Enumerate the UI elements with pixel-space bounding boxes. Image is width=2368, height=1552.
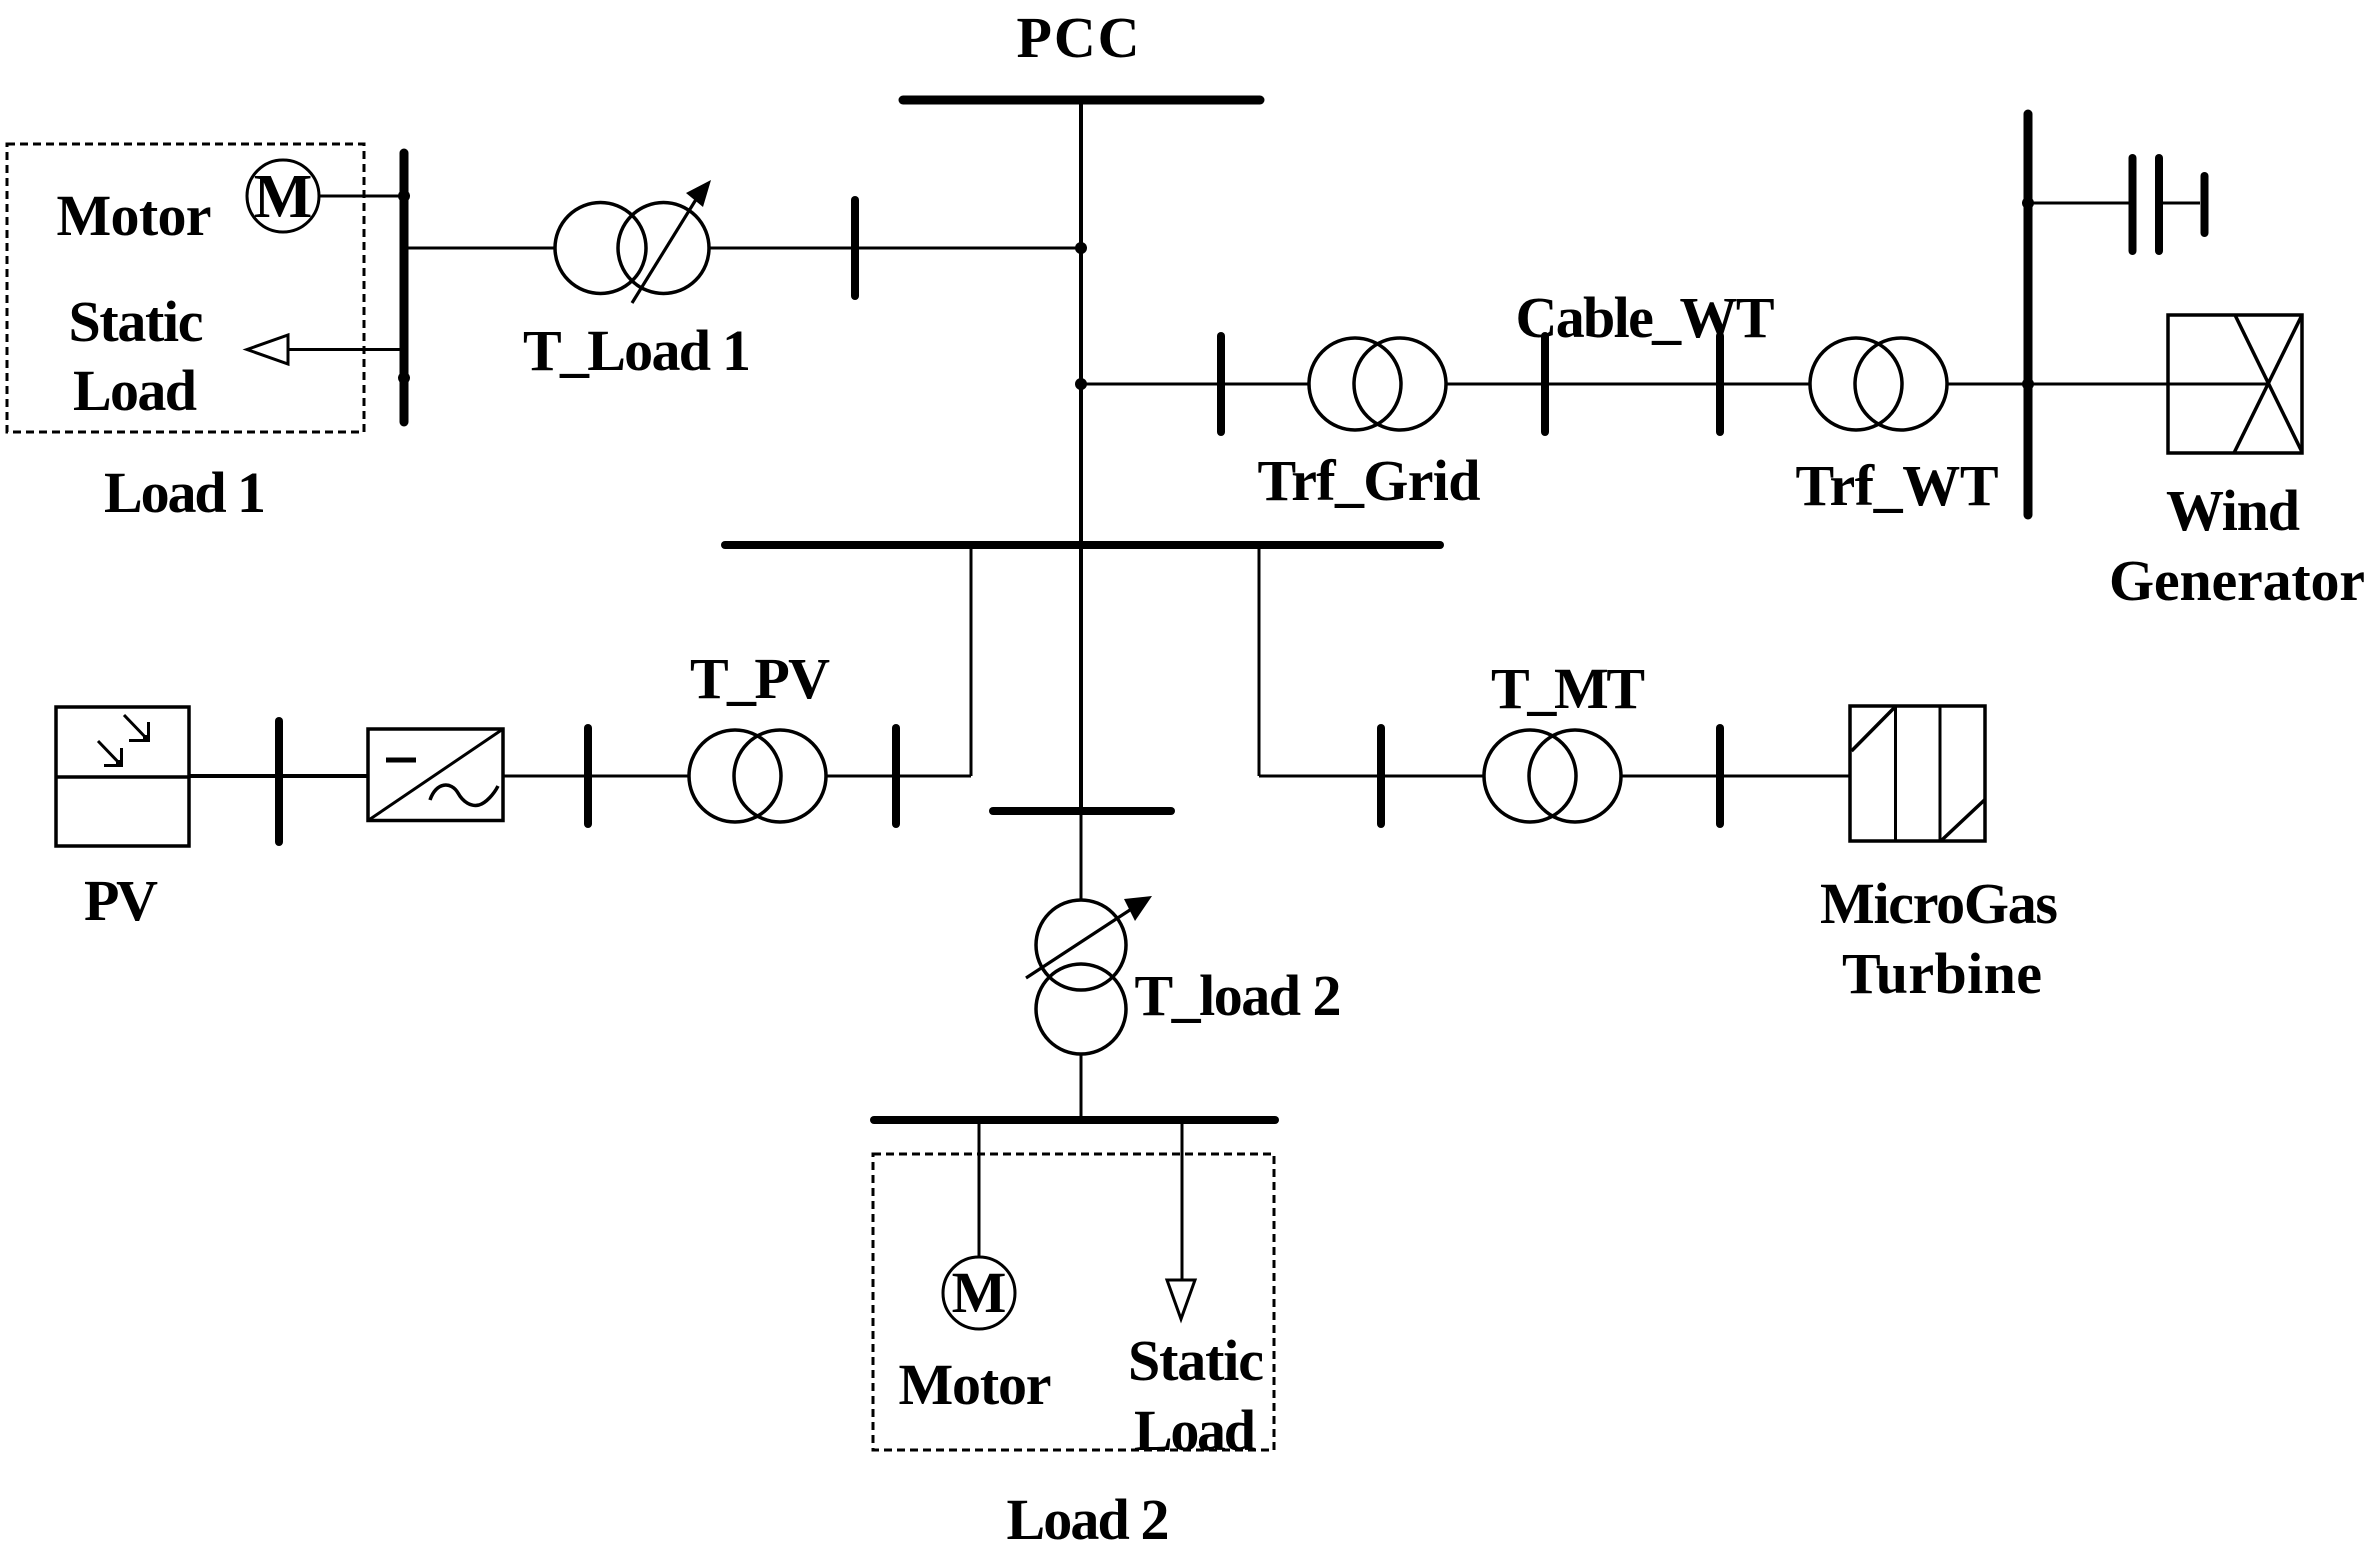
junction node Load1 busbar bottom	[398, 372, 410, 384]
svg-text:Cable_WT: Cable_WT	[1516, 285, 1775, 350]
wire T_PV to drop	[826, 775, 971, 778]
svg-text:Load 1: Load 1	[104, 460, 266, 525]
wire Cable_WT	[1446, 383, 1810, 386]
busbar bottom	[874, 1116, 1275, 1124]
svg-text:Wind: Wind	[2166, 478, 2300, 543]
breaker CB4 (cable right)	[1716, 336, 1724, 432]
junction node on main vertical at row B	[1075, 378, 1087, 390]
wire Trf_WT to WT busbar	[1947, 383, 2028, 386]
wire drop left (middle bus to PV row)	[970, 545, 973, 776]
transformer Trf_Grid	[1309, 338, 1446, 430]
capacitor plate 3 (short)	[2201, 176, 2209, 233]
svg-text:Trf_WT: Trf_WT	[1796, 453, 1999, 518]
wire main vertical from PCC bus to middle bus and small bus	[1079, 100, 1083, 811]
wire T_MT to MicroGas turbine	[1621, 775, 1850, 778]
svg-text:T_MT: T_MT	[1491, 656, 1645, 721]
dashed box Load 1	[7, 144, 364, 432]
transformer T_PV	[689, 730, 826, 822]
svg-text:Load: Load	[73, 358, 197, 423]
static load arrow (Load 2)	[1167, 1280, 1195, 1319]
svg-text:Motor: Motor	[899, 1352, 1052, 1417]
svg-text:T_load 2: T_load 2	[1135, 963, 1342, 1028]
busbar middle	[725, 541, 1440, 549]
wire T_load 2 to bottom bus	[1080, 1054, 1083, 1120]
transformer Trf_WT	[1810, 338, 1947, 430]
wire drop right to T_MT	[1259, 775, 1484, 778]
motor M (Load 1)	[247, 160, 319, 232]
transformer T_load 2	[1026, 896, 1152, 1054]
junction node on main vertical at row A	[1075, 242, 1087, 254]
breaker CB8	[1377, 728, 1385, 824]
wire static drop (Load 2)	[1181, 1120, 1184, 1280]
breaker CB7	[892, 728, 900, 824]
MicroGas turbine box	[1850, 706, 1985, 841]
breaker CB6	[584, 728, 592, 824]
wire row B: main vertical to Trf_Grid	[1081, 383, 1310, 386]
svg-text:Turbine: Turbine	[1842, 941, 2042, 1006]
wire row A: busbar to T_Load 1	[408, 247, 556, 250]
junction node Load1 busbar top	[398, 190, 410, 202]
junction node WT busbar at row B	[2022, 378, 2034, 390]
junction node WT busbar top	[2022, 197, 2034, 209]
transformer T_MT	[1484, 730, 1621, 822]
inverter box	[368, 729, 503, 821]
static load arrow (Load 1)	[247, 335, 288, 364]
motor M (Load 2)	[943, 1257, 1015, 1329]
svg-text:PV: PV	[84, 868, 158, 933]
breaker CB2 (row B)	[1217, 336, 1225, 432]
svg-text:M: M	[254, 163, 313, 231]
svg-text:Generator: Generator	[2109, 548, 2365, 613]
svg-text:PCC: PCC	[1017, 5, 1140, 70]
svg-text:M: M	[952, 1260, 1007, 1325]
svg-text:MicroGas: MicroGas	[1820, 871, 2058, 936]
svg-text:Load: Load	[1134, 1398, 1256, 1463]
svg-text:Trf_Grid: Trf_Grid	[1258, 448, 1481, 513]
wind generator box	[2168, 315, 2302, 453]
svg-text:Static: Static	[1128, 1328, 1264, 1393]
busbar WT	[2024, 114, 2033, 515]
wire drop right (middle bus to MT row)	[1258, 545, 1261, 776]
wire inverter to T_PV	[502, 775, 690, 778]
PV panel box	[56, 707, 189, 846]
wire static load (Load 1)	[288, 348, 404, 351]
wire capacitor middle	[2163, 202, 2200, 205]
wire PV to inverter	[189, 774, 368, 778]
svg-text:Static: Static	[69, 289, 204, 354]
busbar small center	[993, 807, 1171, 815]
wire to capacitor	[2028, 202, 2129, 205]
svg-text:Motor: Motor	[57, 183, 212, 248]
breaker CB3 (cable left)	[1541, 336, 1549, 432]
breaker CB9	[1716, 728, 1724, 824]
wire small bus to T_load 2	[1080, 811, 1083, 901]
busbar PCC	[903, 96, 1260, 105]
dashed box Load 2	[873, 1154, 1274, 1450]
capacitor plate 1	[2129, 158, 2137, 251]
capacitor plate 2	[2155, 158, 2163, 251]
wire motor to Load1 busbar	[319, 195, 404, 198]
breaker CB5 (PV)	[275, 721, 283, 842]
wire row A: T_Load 1 to main vertical	[708, 247, 1081, 250]
wire motor drop (Load 2)	[978, 1120, 981, 1257]
breaker CB1 (row A)	[851, 200, 859, 296]
transformer T_Load 1	[555, 180, 711, 303]
busbar Load 1	[400, 153, 409, 422]
svg-text:T_PV: T_PV	[690, 646, 830, 711]
svg-text:T_Load 1: T_Load 1	[523, 318, 751, 383]
svg-text:Load 2: Load 2	[1007, 1487, 1170, 1552]
wire WT busbar to wind generator	[2028, 383, 2268, 386]
